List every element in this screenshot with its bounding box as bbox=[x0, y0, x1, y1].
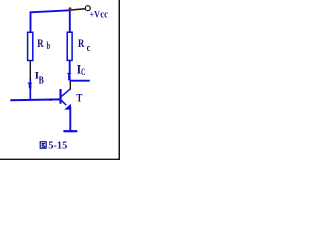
wire top rail blue segment bbox=[30, 10, 69, 12]
svg-text:B: B bbox=[39, 75, 44, 87]
svg-text:R: R bbox=[78, 36, 85, 50]
wire below Rb black segment bbox=[29, 61, 31, 80]
svg-text:T: T bbox=[76, 90, 82, 104]
node junction dot bbox=[69, 7, 72, 11]
svg-text:+V: +V bbox=[90, 11, 101, 21]
transistor emitter diagonal bbox=[61, 100, 66, 105]
wire below Rc blue bbox=[69, 60, 71, 73]
wire collector vertical black segment bbox=[69, 81, 71, 90]
transistor collector diagonal bbox=[61, 89, 70, 96]
transistor emitter arrowhead bbox=[64, 104, 71, 110]
svg-text:c: c bbox=[87, 43, 91, 54]
svg-text:R: R bbox=[37, 36, 44, 50]
resistor Rb bbox=[28, 32, 33, 60]
current arrow IC bbox=[67, 73, 71, 77]
wire emitter vertical to ground bbox=[69, 107, 71, 132]
current arrow IB bbox=[27, 83, 32, 86]
wire left branch top vertical bbox=[30, 12, 32, 33]
svg-text:5-15: 5-15 bbox=[48, 140, 67, 152]
wire collector output stub bbox=[70, 80, 90, 82]
transistor T base bar bbox=[59, 89, 61, 104]
wire base horizontal bbox=[10, 98, 60, 101]
caption glyph 图 bbox=[40, 142, 46, 149]
wire right branch top vertical bbox=[69, 10, 71, 32]
wire top rail black segment to terminal bbox=[70, 9, 86, 10]
ground bar bbox=[63, 130, 77, 132]
svg-text:b: b bbox=[47, 41, 51, 52]
border line right bbox=[118, 0, 120, 160]
terminal +Vcc circle bbox=[85, 6, 90, 11]
border line bottom bbox=[0, 158, 120, 160]
resistor Rc bbox=[67, 32, 72, 60]
node blob on base wire bbox=[49, 99, 51, 101]
svg-text:cc: cc bbox=[100, 9, 108, 20]
svg-text:C: C bbox=[81, 67, 85, 77]
wire below arrow blue segment to base line bbox=[29, 79, 31, 101]
